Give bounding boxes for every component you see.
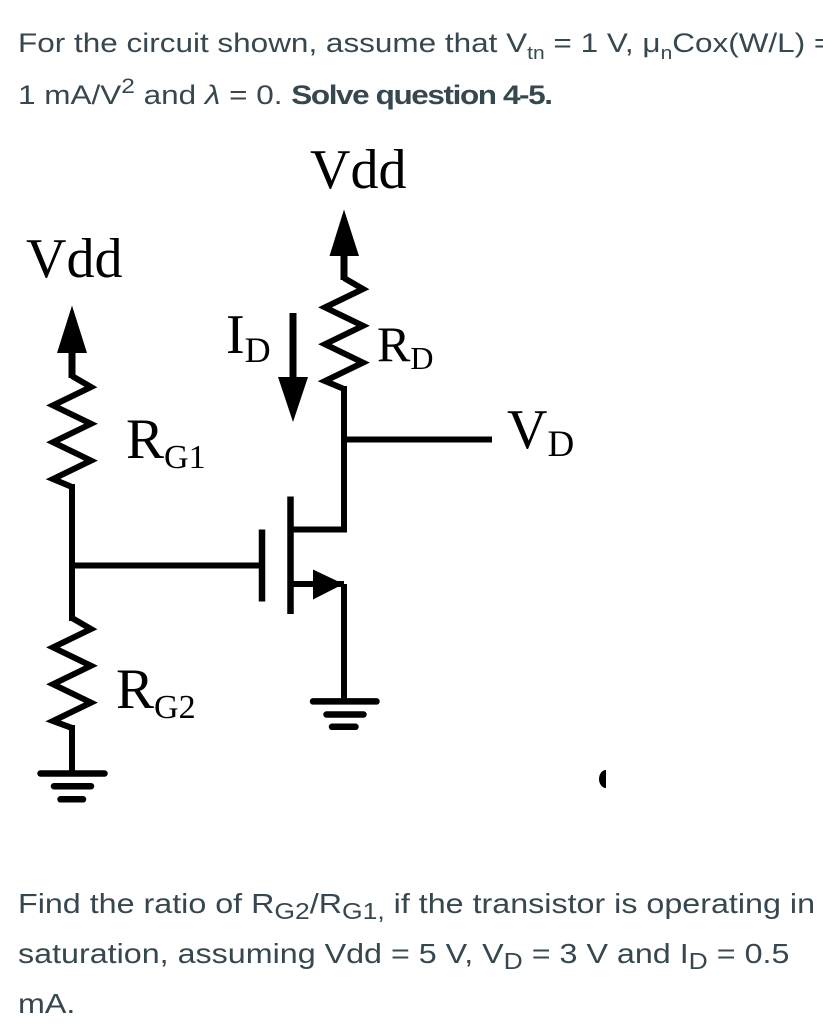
wire VD node (horizontal) [344,437,492,443]
svg-text:RD: RD [377,316,433,376]
svg-text:RG2: RG2 [116,658,196,726]
ID current arrow [290,313,297,380]
svg-text:RG1: RG1 [126,408,206,476]
svg-text:Vdd: Vdd [26,228,122,290]
resistor RG1 [53,376,91,487]
resistor RD [325,278,363,389]
wire RG1 to RG2 (left vertical) [69,484,75,621]
bottom question paragraph [18,879,815,1024]
ground (right) [313,701,377,726]
wire RG2 to ground [69,725,75,773]
svg-text:ID: ID [226,304,271,370]
wire gate (horizontal) [72,563,259,569]
Vdd arrow (left) [69,348,76,378]
ground (left) [41,774,105,800]
transistor M1 gate bar [259,530,266,602]
wire RD to drain node [288,386,344,530]
Vdd arrow (right) [341,252,348,280]
wire source to ground [341,584,347,702]
svg-text:VD: VD [507,399,574,465]
top problem statement paragraph [18,17,823,121]
svg-text:Vdd: Vdd [310,139,406,201]
resistor RG2 [53,618,91,728]
transistor M1 source wire with arrow [291,581,345,587]
transistor M1 channel bar [287,497,294,615]
stray half-disc mark [599,770,606,788]
